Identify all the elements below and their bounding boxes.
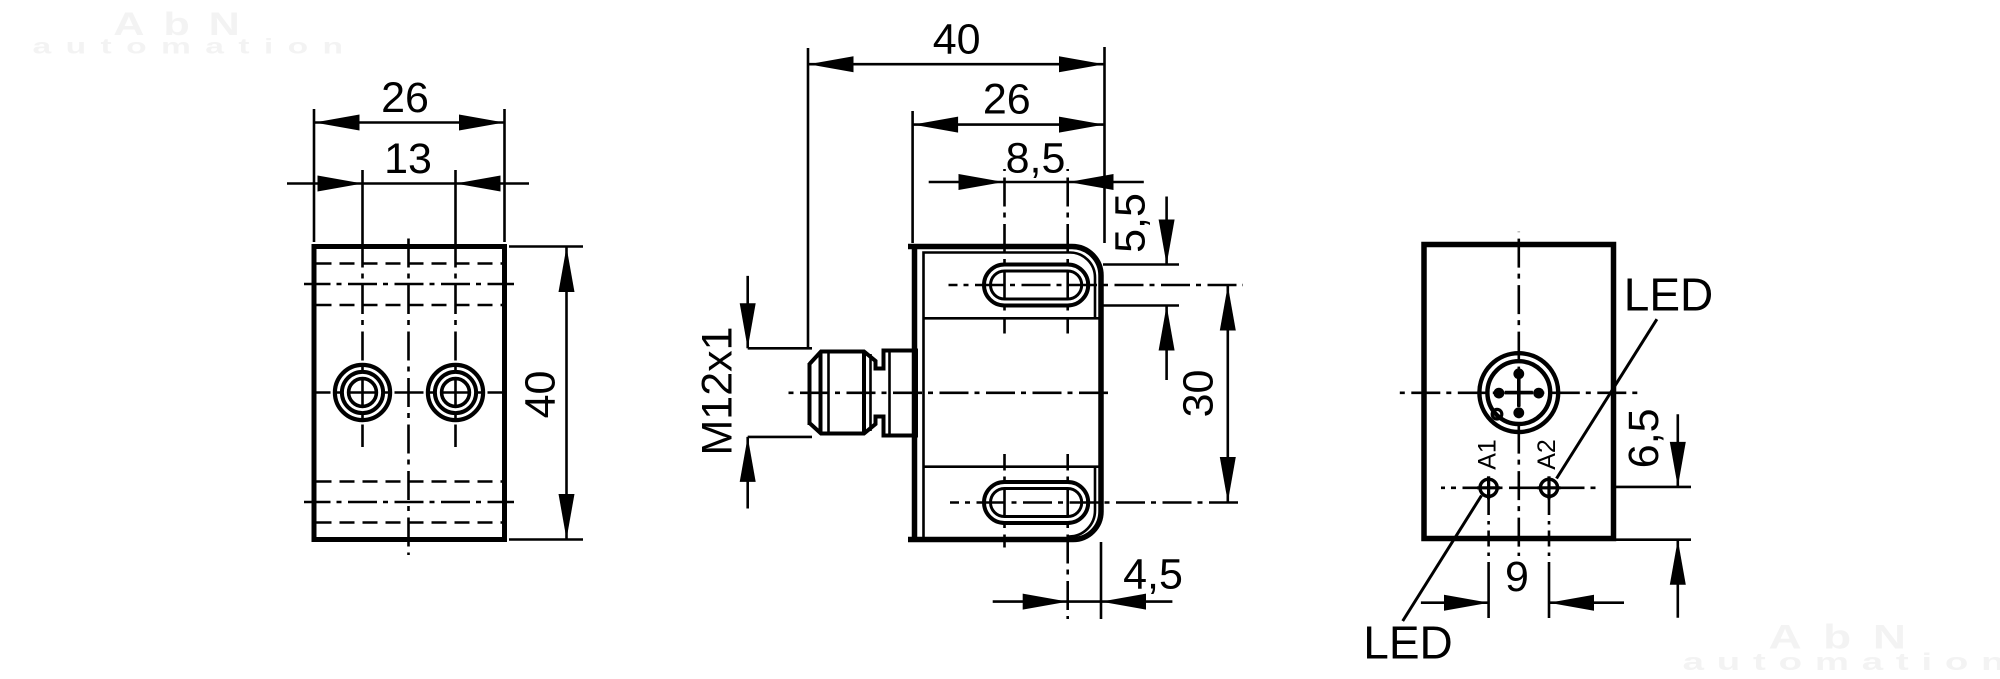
connector end face bbox=[808, 363, 812, 425]
connector center cross bbox=[1505, 391, 1533, 395]
svg-text:6,5: 6,5 bbox=[1620, 408, 1668, 468]
collar inner vertical line bbox=[888, 351, 891, 436]
dimension 26 (left view width) extension lines bbox=[313, 109, 316, 242]
body outline rectangle (right view) bbox=[1424, 245, 1614, 539]
svg-text:5,5: 5,5 bbox=[1107, 193, 1155, 253]
connector pin right bbox=[1533, 388, 1544, 399]
connector pin top bbox=[1513, 368, 1524, 379]
svg-text:30: 30 bbox=[1175, 370, 1223, 418]
thread vertical line c bbox=[862, 352, 866, 434]
svg-text:LED: LED bbox=[1363, 617, 1452, 669]
svg-text:40: 40 bbox=[933, 16, 981, 64]
sensor body edge lower (thin) bbox=[924, 465, 1102, 468]
bracket left edge (thick) bbox=[912, 244, 918, 542]
thread vertical line d bbox=[869, 354, 872, 431]
inner sheet contour bottom-right bbox=[1069, 467, 1095, 537]
bottom slot arc-center vertical line left bbox=[1003, 454, 1006, 548]
dimension 26 line with arrows bbox=[314, 121, 505, 124]
svg-text:9: 9 bbox=[1505, 553, 1529, 601]
thread vertical line b bbox=[827, 352, 830, 434]
dimension M12x1 tick lines bbox=[748, 347, 812, 350]
M12 connector front view outer circle bbox=[1479, 353, 1558, 432]
dimension M12x1 arrows bbox=[746, 276, 749, 348]
body outline rectangle (left view) bbox=[314, 247, 505, 540]
bracket body outline (thick) bbox=[908, 247, 1101, 540]
dimension 6,5 with outside arrows bbox=[1677, 414, 1680, 487]
svg-text:13: 13 bbox=[384, 135, 432, 183]
hole H2 vertical center line bbox=[454, 170, 457, 246]
dimension 30 line with arrows bbox=[1227, 285, 1230, 503]
svg-text:A2: A2 bbox=[1533, 439, 1561, 470]
leader line to upper-right LED text bbox=[1557, 319, 1657, 478]
svg-text:LED: LED bbox=[1624, 269, 1713, 321]
dimension 5,5 extension lines (slot top/bottom) bbox=[1103, 263, 1179, 266]
bottom slot horizontal center line bbox=[950, 501, 1238, 504]
connector pin left bbox=[1494, 388, 1505, 399]
lower center line (dash-dot) bbox=[304, 501, 514, 504]
svg-text:26: 26 bbox=[381, 74, 429, 122]
svg-text:M12x1: M12x1 bbox=[694, 326, 742, 455]
hidden edge dashed line bottom bbox=[317, 521, 503, 524]
M12 connector front view inner circle bbox=[1487, 361, 1550, 424]
dimension 40 (middle) extension lines bbox=[807, 48, 810, 348]
svg-text:A1: A1 bbox=[1474, 439, 1502, 470]
hidden edge dashed line 2 bbox=[317, 304, 503, 307]
vertical center line right view bbox=[1518, 232, 1521, 556]
LED A1 indicator circle with cross bbox=[1480, 479, 1497, 496]
dimension 26 (middle) extension line bbox=[911, 111, 914, 243]
connector keyway notch bbox=[1492, 409, 1502, 419]
LED A2 indicator circle with cross bbox=[1540, 479, 1557, 496]
horizontal center line through holes bbox=[314, 391, 505, 394]
bottom slot arc-center vertical line right (extends for 4,5 dim) bbox=[1066, 454, 1069, 619]
inner sheet contour left/top bbox=[924, 253, 1096, 538]
leader line to lower-left LED text bbox=[1403, 496, 1482, 622]
mounting hole H1 concentric circles bbox=[335, 365, 390, 420]
vertical center line of left view bbox=[407, 232, 410, 555]
LED A2 vertical extension line bbox=[1548, 499, 1551, 578]
thread vertical line a bbox=[819, 352, 823, 434]
top slot arc-center vertical line left bbox=[1003, 169, 1006, 334]
LED A1 vertical extension line bbox=[1487, 499, 1490, 578]
dimension 6,5 extension lines bbox=[1616, 486, 1691, 489]
LED horizontal center line bbox=[1441, 486, 1600, 489]
bottom slot inner stadium bbox=[991, 489, 1082, 517]
svg-text:40: 40 bbox=[517, 371, 565, 419]
dimension 8,5 line with outside arrows bbox=[929, 181, 1144, 184]
svg-text:4,5: 4,5 bbox=[1123, 551, 1183, 599]
hidden edge dashed line 3 bbox=[317, 480, 503, 483]
top slot inner stadium bbox=[991, 271, 1082, 299]
sensor body edge upper (thin) bbox=[924, 317, 1102, 320]
svg-text:automation: automation bbox=[33, 35, 358, 58]
svg-text:8,5: 8,5 bbox=[1006, 135, 1066, 183]
connector thread outline with chamfers bbox=[810, 351, 917, 436]
svg-text:automation: automation bbox=[1683, 649, 2000, 676]
hole H1 vertical center line bbox=[361, 170, 364, 246]
hidden edge dashed line top bbox=[317, 262, 503, 265]
dimension 4,5 extension line (body right edge) bbox=[1100, 542, 1103, 619]
dimension 40 (left view height) extension lines bbox=[509, 245, 583, 248]
upper center line (dash-dot) bbox=[304, 283, 514, 286]
dimension 40 (middle) line with arrows bbox=[808, 63, 1105, 66]
dimension 26 (middle) line with arrows bbox=[913, 123, 1105, 126]
dimension 9 line with outside arrows bbox=[1421, 601, 1489, 604]
bottom slot outer stadium bbox=[984, 482, 1088, 523]
dimension 5,5 line with outside arrows bbox=[1165, 197, 1168, 265]
connector pin bottom bbox=[1513, 407, 1524, 418]
top slot horizontal center line bbox=[949, 284, 1244, 287]
dimension 13 (hole spacing) line with outside arrows bbox=[287, 182, 529, 185]
dimension 40 line with arrows bbox=[565, 247, 568, 540]
svg-text:26: 26 bbox=[983, 76, 1031, 124]
top slot arc-center vertical line right bbox=[1066, 169, 1069, 334]
middle view horizontal center line bbox=[788, 391, 1113, 394]
horizontal center line through connector bbox=[1395, 391, 1644, 394]
mounting hole H2 concentric circles bbox=[428, 365, 483, 420]
top slot outer stadium bbox=[984, 265, 1088, 306]
dimension 4,5 line with outside arrows bbox=[993, 600, 1173, 603]
